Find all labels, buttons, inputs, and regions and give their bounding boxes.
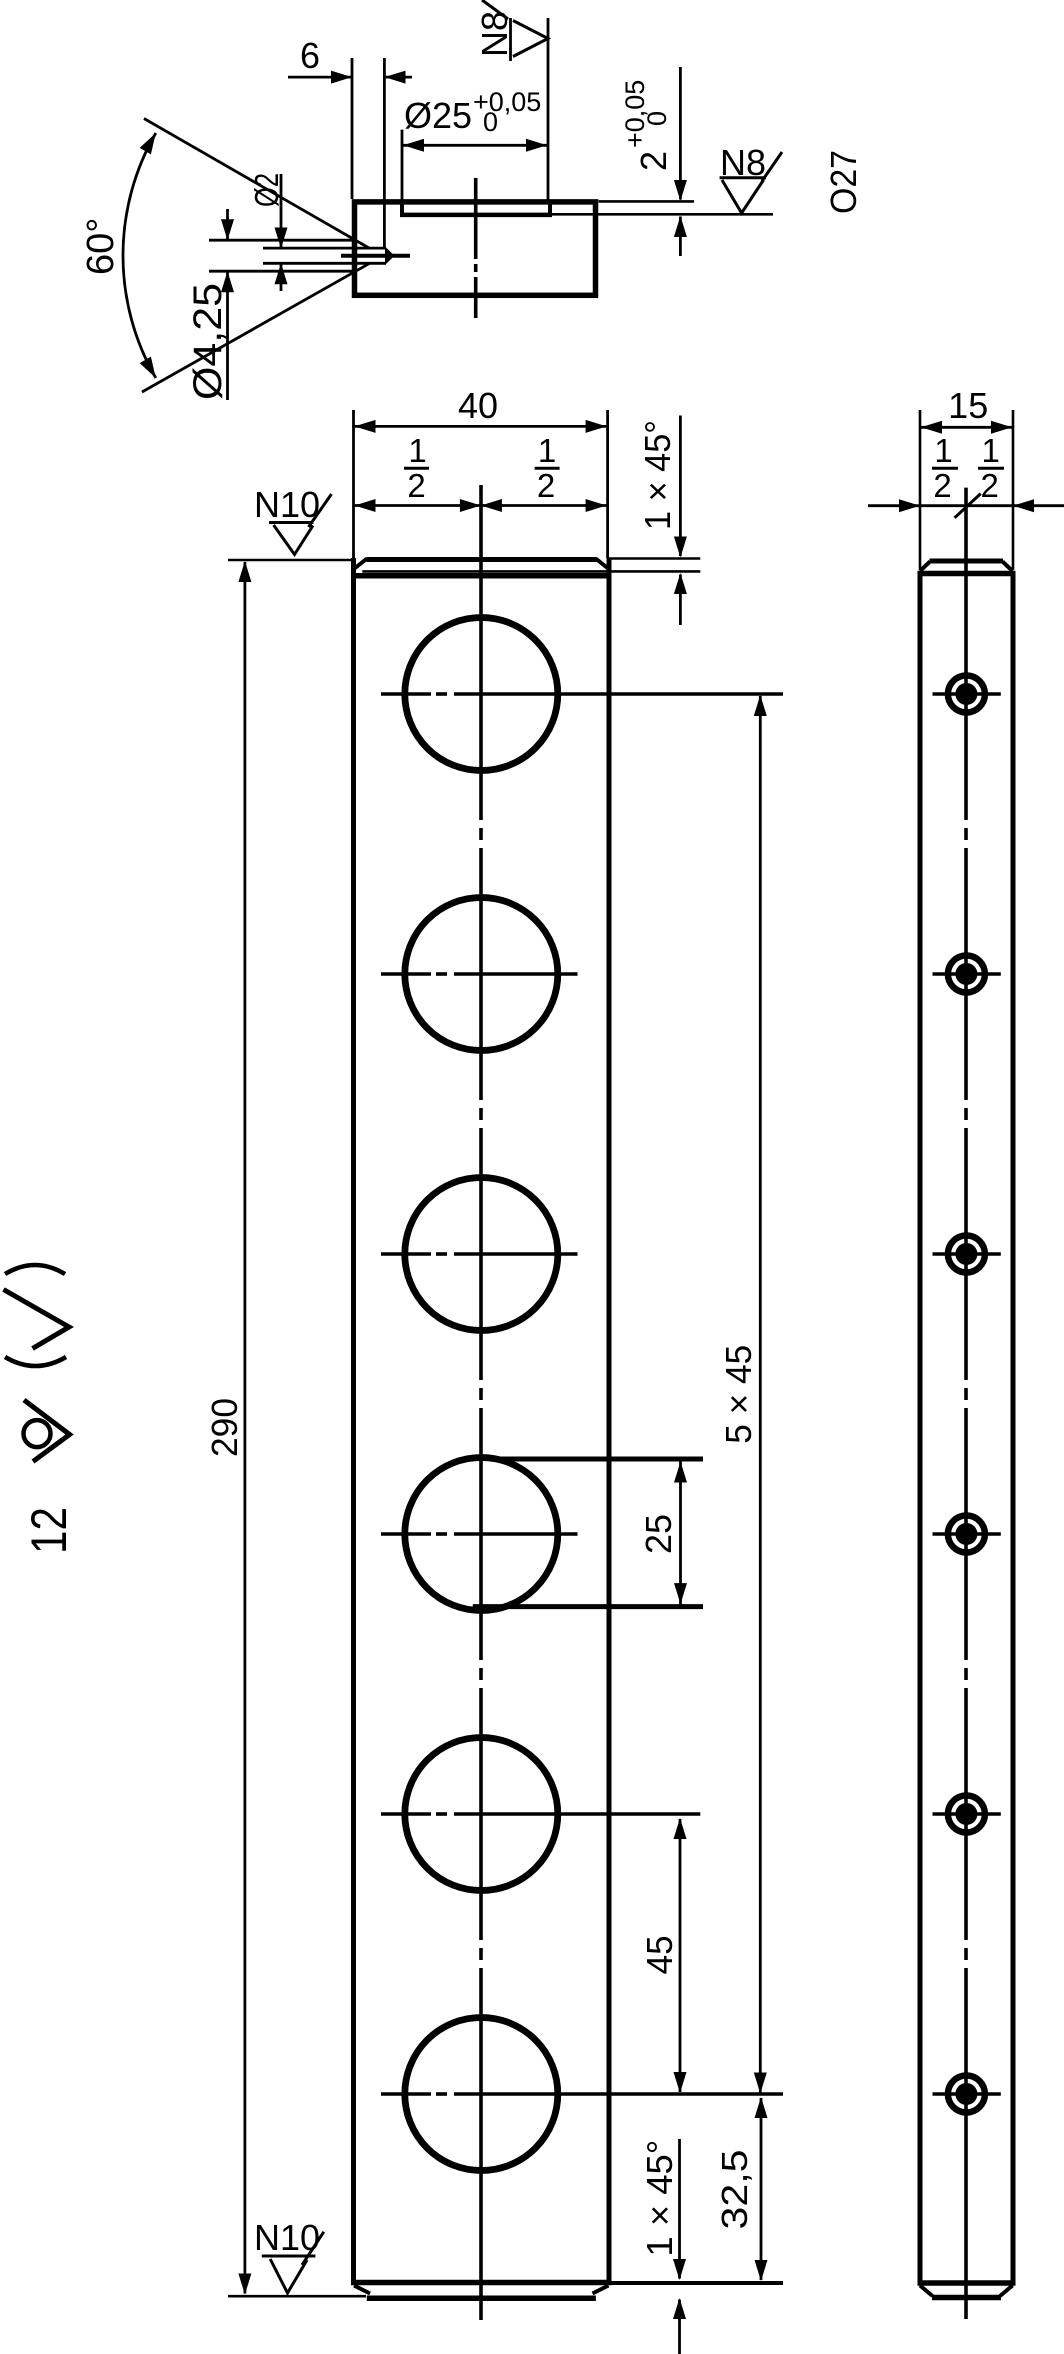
section vertical centerline: [474, 178, 478, 318]
side view top chamfer diagonals: [920, 562, 1013, 572]
dimension 1/2 1/2 front line and arrows: [354, 499, 608, 512]
label 1 x 45 bottom: [639, 2140, 680, 2257]
surface symbol N10 top: [269, 494, 332, 555]
side view bottom chamfer diagonals: [920, 2286, 1013, 2297]
side view top surface line: [930, 559, 1004, 564]
label 2 +0,05/0 rotated: [620, 80, 674, 171]
front view top surface line: [366, 557, 596, 562]
hole 4 horizontal centerline: [381, 1532, 578, 1536]
svg-text:5 × 45: 5 × 45: [718, 1345, 759, 1444]
hole 4 circle Ø25: [405, 1458, 558, 1611]
fraction 1/2 side left: [932, 432, 958, 504]
dimension 290 extension line bottom: [228, 2295, 366, 2298]
Ø2 dimension line and arrows: [275, 174, 288, 291]
60 degree countersink construction line upper: [144, 119, 369, 249]
svg-text:O27: O27: [823, 150, 864, 214]
front view bottom chamfer diagonals: [354, 2286, 609, 2294]
hole 6 circle Ø25: [405, 2018, 558, 2171]
side view countersunk hole 2 symbol: [933, 956, 1001, 993]
svg-text:45: 45: [639, 1935, 680, 1974]
svg-text:2: 2: [537, 467, 555, 504]
label 45: [639, 1935, 680, 1974]
front view top full-width edge: [351, 573, 612, 579]
side view countersunk hole 5 symbol: [933, 1796, 1001, 1833]
front view right edge: [607, 558, 612, 2285]
svg-text:Ø4,25: Ø4,25: [186, 283, 230, 400]
svg-text:0: 0: [642, 111, 672, 126]
side view vertical centerline: [964, 488, 968, 2319]
dimension 2 extension lines: [551, 201, 773, 214]
svg-text:290: 290: [204, 1398, 245, 1457]
svg-text:60°: 60°: [80, 218, 122, 275]
label 290: [204, 1398, 245, 1457]
dimension 2 line and arrows: [674, 67, 687, 256]
Ø25 extension line left: [401, 130, 404, 203]
dimension 25 tangent extension lines: [473, 1459, 703, 1607]
fraction 1/2 right: [535, 432, 560, 504]
surface finish symbol N8 rotated on Ø25 bore: [482, 0, 548, 61]
svg-text:1: 1: [982, 432, 1000, 469]
general surface symbol with circle rotated: [24, 1400, 70, 1462]
dimension 45 line and arrows: [674, 1818, 687, 2093]
svg-text:40: 40: [458, 385, 498, 426]
svg-text:1 × 45°: 1 × 45°: [639, 2140, 680, 2257]
svg-text:6: 6: [300, 35, 320, 76]
label 12 part thickness: [21, 1507, 77, 1554]
hole 1 circle Ø25: [405, 618, 558, 771]
surface finish symbol N8 upright on recess floor: [720, 152, 782, 213]
fraction 1/2 left: [404, 432, 429, 504]
dimension 15 line and arrows: [920, 421, 1013, 434]
side view countersunk hole 6 symbol: [933, 2076, 1001, 2113]
N8 extension line right: [547, 18, 550, 203]
front view vertical centerline: [479, 485, 483, 2320]
general surface symbol basic check rotated: [4, 1290, 70, 1349]
svg-text:2: 2: [933, 467, 951, 504]
side view bottom surface line: [932, 2295, 1001, 2301]
front view bottom surface line: [367, 2296, 596, 2302]
svg-text:N10: N10: [254, 2217, 320, 2258]
label 15: [948, 385, 988, 426]
surface symbol N10 bottom: [262, 2232, 324, 2293]
label 32,5: [714, 2150, 755, 2230]
side view countersunk hole 1 symbol: [933, 676, 1001, 713]
label N8 rotated: [474, 11, 515, 57]
recess Ø25 x 2 deep in section: [400, 202, 552, 215]
hole 2 circle Ø25: [405, 898, 558, 1051]
svg-text:Ø2: Ø2: [248, 173, 285, 207]
label O27 rotated: [823, 150, 864, 214]
svg-text:N10: N10: [254, 484, 320, 525]
small hole centerline stub: [341, 254, 410, 258]
label 5 x 45: [718, 1345, 759, 1444]
dimension 1/2 1/2 side line and arrows: [868, 499, 1064, 512]
side view bottom chamfer-top edge: [918, 2280, 1016, 2286]
label 1 x 45 top: [637, 420, 678, 530]
extension line top right upper: [608, 557, 700, 560]
extension line bottom right: [611, 2281, 783, 2285]
side view top full-width edge: [918, 571, 1016, 577]
label N10 bottom: [254, 2217, 320, 2258]
label Ø4,25: [186, 283, 230, 400]
dimension 6 line and arrows: [288, 71, 412, 84]
svg-text:N8: N8: [720, 142, 766, 183]
svg-text:2: 2: [981, 467, 999, 504]
dimension 40 extension lines: [354, 410, 608, 558]
front view top chamfer inner thin line: [362, 570, 700, 573]
svg-text:N8: N8: [474, 11, 515, 57]
dimension 290 line and arrows: [238, 561, 251, 2295]
svg-text:2: 2: [407, 467, 425, 504]
dimension 1x45 top line and arrows: [674, 416, 687, 626]
svg-text:12: 12: [21, 1507, 77, 1554]
fraction 1/2 side right: [978, 432, 1004, 504]
side view countersunk hole 4 symbol: [933, 1516, 1001, 1553]
label 6: [300, 35, 320, 76]
dimension 15 extension lines: [920, 410, 1013, 570]
label N10 top: [254, 484, 320, 525]
Ø4.25 countersink extension lines: [209, 240, 355, 271]
side view countersunk hole 3 symbol: [933, 1236, 1001, 1273]
section view outline of plate cross-section: [355, 202, 596, 295]
dimension 290 extension line top: [228, 559, 352, 562]
svg-text:2: 2: [633, 151, 674, 171]
hole 2 horizontal centerline: [381, 972, 578, 976]
svg-text:Ø25: Ø25: [404, 95, 472, 136]
drill tip of Ø2 hole: [385, 247, 395, 266]
front view bottom chamfer-top edge: [351, 2280, 612, 2286]
label 60 degrees: [80, 218, 122, 275]
60 degree angle dimension arc: [123, 133, 156, 378]
label 25: [638, 1514, 679, 1554]
parenthesis close rotated: [5, 1265, 65, 1274]
label Ø25 +0,05/0: [404, 87, 541, 137]
svg-text:1: 1: [538, 432, 556, 469]
label 40: [458, 385, 498, 426]
hole 3 horizontal centerline: [381, 1252, 578, 1256]
svg-text:0: 0: [483, 107, 498, 137]
Ø4.25 dimension line and arrows: [221, 209, 234, 400]
dimension 25 line and arrows: [674, 1460, 687, 1606]
60 degree countersink construction line lower: [142, 263, 370, 392]
hole 1 horizontal centerline: [381, 692, 783, 696]
front view left edge: [351, 558, 356, 2285]
svg-text:1: 1: [934, 432, 952, 469]
svg-text:15: 15: [948, 385, 988, 426]
side view left edge: [918, 571, 923, 2283]
hole 5 horizontal centerline: [381, 1812, 700, 1816]
svg-text:25: 25: [638, 1514, 679, 1554]
dimension 32,5 line and arrows: [755, 2097, 768, 2281]
parenthesis open rotated: [5, 1357, 66, 1366]
hole 3 circle Ø25: [405, 1178, 558, 1331]
label N8 upright: [720, 142, 766, 183]
front view top chamfer diagonals: [355, 559, 609, 569]
side center slash: [955, 494, 981, 518]
Ø2 hole lines: [263, 248, 386, 263]
side view right edge: [1011, 571, 1016, 2283]
Ø25 dimension line and arrows: [402, 139, 548, 152]
hole 6 horizontal centerline: [381, 2092, 783, 2096]
dimension 6 extension lines: [352, 58, 384, 247]
svg-text:1 × 45°: 1 × 45°: [637, 420, 678, 530]
svg-text:32,5: 32,5: [714, 2150, 755, 2230]
dimension 1x45 bottom line and arrows: [673, 2139, 686, 2354]
hole 5 circle Ø25: [405, 1738, 558, 1891]
dimension 5x45 line and arrows: [754, 695, 767, 2094]
dimension 40 line and arrows: [354, 420, 608, 433]
label Ø2: [248, 173, 285, 207]
svg-text:1: 1: [408, 432, 426, 469]
